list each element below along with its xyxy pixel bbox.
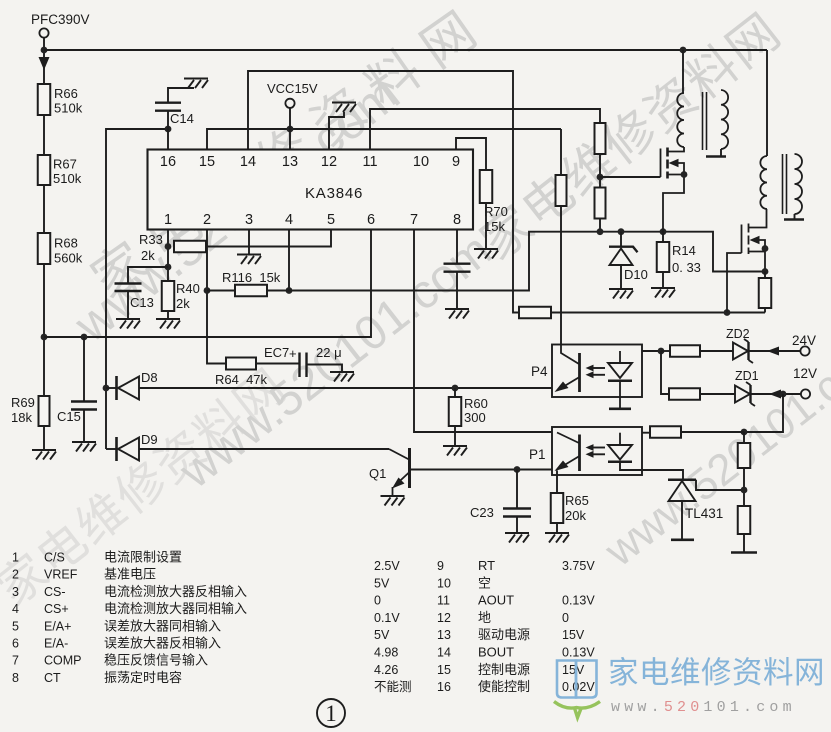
svg-text:2k: 2k	[176, 296, 190, 311]
wire	[662, 232, 664, 242]
junction R60 tap	[452, 385, 459, 392]
svg-text:6: 6	[367, 212, 375, 228]
wire to P4 collector	[560, 206, 562, 345]
svg-text:P1: P1	[529, 447, 546, 462]
svg-text:R66: R66	[54, 86, 78, 101]
resistor gate series (MOSFET2)	[519, 307, 551, 319]
wire pin 4 CS+	[288, 230, 290, 291]
svg-text:22 μ: 22 μ	[316, 345, 342, 360]
wire VCC to P4 pull-up	[560, 129, 562, 175]
svg-text:5V: 5V	[374, 628, 390, 642]
junction MOSFET2 source	[762, 245, 769, 252]
wire	[43, 426, 45, 449]
ground Q1	[381, 496, 405, 506]
diode TL431 shunt regulator	[668, 480, 696, 501]
resistor MOSFET2 source-gate	[759, 278, 772, 308]
wire pin 9 RT	[456, 138, 486, 170]
ground CT cap	[445, 309, 469, 319]
resistor gate-source (MOSFET1)	[595, 188, 606, 219]
junction C13 tap	[165, 264, 172, 271]
svg-text:0.1V: 0.1V	[374, 611, 400, 625]
junction TL431 ref	[741, 487, 748, 494]
ground R60	[443, 446, 467, 456]
resistor divider lower	[738, 506, 751, 534]
wire top rail to T2	[766, 50, 768, 156]
arrow P1 light 2	[590, 453, 605, 455]
wire	[661, 351, 669, 394]
wire feedback line to pin 6	[44, 230, 371, 338]
wire	[599, 154, 601, 188]
op-amp P1 optocoupler box	[552, 427, 642, 475]
svg-text:1: 1	[325, 701, 337, 726]
svg-text:EC7: EC7	[264, 345, 289, 360]
svg-text:+: +	[289, 346, 297, 361]
wire	[743, 432, 745, 443]
svg-text:15: 15	[437, 663, 451, 677]
junction top rail / T1	[680, 47, 687, 54]
transistor MOSFET upper	[661, 147, 685, 232]
svg-text:使能控制: 使能控制	[478, 679, 530, 694]
svg-text:11: 11	[362, 154, 377, 170]
svg-text:D9: D9	[141, 432, 158, 447]
svg-text:14: 14	[437, 646, 451, 660]
arrow P4 light 2	[590, 374, 605, 376]
svg-text:6: 6	[12, 637, 19, 651]
wire	[764, 272, 766, 279]
wire	[43, 115, 45, 155]
svg-text:Q1: Q1	[369, 466, 386, 481]
wire D8 line to P4 emitter	[139, 387, 552, 389]
svg-text:7: 7	[410, 212, 418, 228]
svg-text:www.520101.com: www.520101.com	[595, 323, 831, 576]
arrow P4 light 1	[590, 367, 605, 369]
svg-text:10: 10	[437, 576, 451, 590]
resistor 24V feed	[670, 345, 700, 357]
core T2	[783, 154, 787, 214]
wire	[794, 214, 796, 219]
wire pin 7 COMP to P1	[414, 230, 552, 433]
svg-text:5: 5	[327, 212, 335, 228]
svg-text:CT: CT	[44, 671, 61, 685]
resistor divider upper	[738, 443, 751, 468]
svg-text:R70: R70	[484, 204, 508, 219]
svg-text:VCC15V: VCC15V	[267, 81, 318, 96]
capacitor EC7 electrolytic	[300, 353, 307, 378]
wire	[485, 203, 487, 248]
wire	[661, 350, 670, 352]
svg-text:R68: R68	[54, 236, 78, 251]
svg-text:7: 7	[12, 654, 19, 668]
op-amp P4 optocoupler box	[552, 345, 642, 398]
svg-text:C13: C13	[130, 295, 154, 310]
capacitor C23	[503, 509, 531, 517]
wire	[167, 111, 169, 129]
return bar T2 secondary	[784, 218, 804, 221]
terminal 12V	[801, 389, 810, 398]
svg-text:VREF: VREF	[44, 568, 78, 582]
resistor R65	[551, 493, 564, 523]
svg-text:8: 8	[453, 212, 461, 228]
svg-text:基准电压: 基准电压	[104, 567, 156, 582]
svg-text:空: 空	[478, 575, 491, 590]
svg-text:1: 1	[12, 551, 19, 565]
wire	[620, 265, 622, 288]
inductor T2 primary	[760, 156, 767, 209]
wire	[516, 470, 518, 509]
wire	[642, 432, 650, 434]
wire pin 16	[167, 129, 169, 150]
junction D10	[618, 228, 625, 235]
arrow MOSFET2 body	[750, 236, 760, 244]
diode D8	[117, 376, 140, 400]
arrow current 24V	[767, 347, 779, 356]
junction source/sense	[762, 268, 769, 275]
inductor T2 secondary	[795, 154, 803, 214]
svg-text:RT: RT	[478, 558, 495, 573]
svg-text:D10: D10	[624, 267, 648, 282]
svg-text:0. 33: 0. 33	[672, 260, 701, 275]
ground C14	[184, 79, 208, 89]
wire	[43, 185, 45, 233]
junction 12V rail	[780, 391, 787, 398]
wire	[700, 350, 733, 352]
svg-text:ZD2: ZD2	[726, 327, 750, 341]
return bar TL431	[671, 538, 694, 541]
svg-text:控制电源: 控制电源	[478, 662, 530, 677]
wire pin16 node to D8/D9 column	[106, 129, 168, 449]
svg-text:15k: 15k	[484, 219, 505, 234]
resistor P4 collector pull-up	[556, 175, 567, 206]
svg-text:R33: R33	[139, 232, 163, 247]
wire	[556, 523, 558, 532]
wire	[743, 534, 745, 552]
svg-text:510k: 510k	[54, 101, 83, 116]
wire	[681, 431, 744, 433]
junction MOSFET1 source	[681, 171, 688, 178]
wire	[83, 337, 85, 401]
transistor MOSFET lower	[727, 209, 767, 313]
svg-text:C14: C14	[170, 111, 194, 126]
svg-text:2.5V: 2.5V	[374, 559, 400, 573]
svg-text:5: 5	[12, 619, 19, 633]
diode ZD2 zener	[733, 339, 753, 363]
ground R40	[156, 319, 180, 329]
wire	[456, 272, 458, 308]
wire top rail	[44, 49, 767, 51]
svg-text:510k: 510k	[53, 171, 82, 186]
junction feedback-rail	[41, 334, 48, 341]
wire	[516, 517, 518, 533]
terminal PFC390V	[39, 28, 48, 37]
svg-text:4: 4	[12, 602, 19, 616]
resistor R33	[174, 241, 206, 253]
resistor R40	[162, 281, 175, 311]
transistor P1 photo	[557, 433, 580, 472]
svg-text:24V: 24V	[792, 333, 816, 348]
svg-text:1: 1	[164, 212, 172, 228]
svg-text:4.26: 4.26	[374, 663, 398, 677]
wire to T1 primary	[682, 50, 684, 93]
transistor P4 photo	[557, 345, 580, 393]
logo book swoosh	[554, 702, 600, 718]
wire TL431 ref	[696, 480, 744, 490]
ground C23	[505, 533, 529, 543]
junction C14/pin16	[165, 126, 172, 133]
svg-text:9: 9	[437, 559, 444, 573]
svg-text:R65: R65	[565, 493, 589, 508]
wire to C13	[128, 267, 168, 283]
diode D10 zener	[609, 247, 638, 265]
svg-text:TL431: TL431	[685, 506, 723, 521]
wire	[454, 388, 456, 397]
transistor Q1 NPN	[389, 448, 410, 495]
wire pin 2 VREF	[207, 230, 226, 364]
wire P1 LED cathode to TL431	[620, 462, 683, 480]
capacitor CT (pin 8)	[444, 264, 471, 272]
wire C14 to ground	[168, 88, 194, 103]
wire pin 11 AOUT	[370, 109, 600, 150]
svg-text:R67: R67	[53, 157, 77, 172]
resistor R70	[480, 170, 493, 203]
capacitor C13	[115, 284, 142, 292]
wire	[662, 272, 664, 287]
svg-text:误差放大器反相输入: 误差放大器反相输入	[104, 636, 221, 651]
resistor R68	[38, 233, 51, 264]
wire R33 to pin 5	[206, 230, 331, 247]
svg-text:0.13V: 0.13V	[562, 594, 595, 608]
svg-text:PFC390V: PFC390V	[31, 12, 90, 27]
svg-text:地: 地	[478, 610, 491, 625]
ground D10	[609, 289, 633, 299]
wire pin 3	[248, 230, 250, 254]
resistor P1 LED feed	[650, 426, 681, 438]
wire	[307, 365, 343, 372]
svg-text:4.98: 4.98	[374, 646, 398, 660]
ground pin 12	[332, 103, 356, 113]
svg-text:0: 0	[374, 594, 381, 608]
svg-text:C/S: C/S	[44, 551, 65, 565]
svg-text:20k: 20k	[565, 508, 586, 523]
svg-text:560k: 560k	[54, 251, 83, 266]
svg-text:C15: C15	[57, 409, 81, 424]
resistor R64	[226, 358, 256, 370]
junction R33/pin1	[165, 243, 172, 250]
svg-text:13: 13	[282, 154, 298, 170]
arrow MOSFET1 body	[669, 159, 679, 167]
ground R69	[32, 450, 56, 460]
node MOSFET1 gate	[597, 174, 604, 181]
resistor R14	[657, 242, 670, 272]
wire	[127, 291, 129, 318]
svg-text:电流检测放大器同相输入: 电流检测放大器同相输入	[104, 601, 247, 616]
svg-text:D8: D8	[141, 370, 158, 385]
svg-text:KA3846: KA3846	[305, 185, 363, 202]
svg-text:R14: R14	[672, 243, 696, 258]
node MOSFET2 gate line	[724, 309, 731, 316]
arrow Q1 emitter	[392, 478, 405, 489]
svg-text:驱动电源: 驱动电源	[478, 627, 530, 642]
op-amp U1 KA3846 PWM controller	[148, 150, 474, 230]
ground R65	[545, 533, 569, 543]
ground C15	[72, 442, 96, 452]
wire pin 12	[329, 112, 344, 150]
svg-text:2k: 2k	[141, 248, 155, 263]
svg-text:15V: 15V	[562, 663, 585, 677]
pin numbers bottom row 1..8	[164, 212, 461, 228]
ground R14	[651, 288, 675, 298]
svg-text:家电维修资料网: 家电维修资料网	[608, 656, 825, 690]
wire rail from PFC terminal	[43, 38, 45, 84]
capacitor C15	[71, 402, 97, 410]
svg-text:300: 300	[464, 410, 486, 425]
pin function table (pins 1-8)	[12, 550, 247, 685]
svg-text:R40: R40	[176, 281, 200, 296]
svg-text:误差放大器同相输入: 误差放大器同相输入	[104, 618, 221, 633]
ground pin 3	[237, 255, 261, 265]
svg-text:AOUT: AOUT	[478, 593, 514, 608]
wire Q1 base to P1 emitter	[410, 469, 553, 471]
diode ZD1 zener	[735, 382, 755, 406]
diode P1 LED	[608, 433, 632, 462]
svg-text:电流检测放大器反相输入: 电流检测放大器反相输入	[104, 584, 247, 599]
wire	[106, 448, 116, 450]
svg-text:0.02V: 0.02V	[562, 680, 595, 694]
svg-text:COMP: COMP	[44, 654, 82, 668]
ground EC7	[330, 372, 354, 382]
core T1	[703, 92, 707, 150]
svg-text:E/A+: E/A+	[44, 619, 71, 633]
logo book icon	[557, 661, 597, 698]
wire	[106, 387, 116, 389]
svg-text:振荡定时电容: 振荡定时电容	[104, 670, 182, 685]
svg-text:稳压反馈信号输入: 稳压反馈信号输入	[104, 653, 208, 668]
wire	[720, 149, 722, 156]
return bar divider	[731, 551, 757, 554]
svg-text:R64 47k: R64 47k	[215, 372, 268, 387]
junction R14	[660, 228, 667, 235]
ground C13	[116, 319, 140, 329]
junction divider top	[741, 429, 748, 436]
wire	[43, 264, 45, 396]
svg-text:3.75V: 3.75V	[562, 559, 595, 573]
svg-text:15V: 15V	[562, 628, 585, 642]
svg-text:C23: C23	[470, 505, 494, 520]
svg-text:P4: P4	[531, 364, 548, 379]
arrow current 12V	[769, 390, 781, 399]
resistor 12V feed	[669, 388, 700, 400]
return bar T1 secondary	[706, 155, 726, 158]
svg-text:15: 15	[199, 154, 215, 170]
svg-text:不能测: 不能测	[374, 680, 412, 694]
wire 12V to P1 feed	[744, 394, 783, 432]
inductor T1 primary	[677, 93, 684, 147]
wire current-sense line	[267, 232, 765, 291]
resistor R67	[38, 155, 51, 185]
arrow P4 emitter	[555, 382, 569, 393]
svg-text:3: 3	[245, 212, 253, 228]
wire to 12V terminal	[751, 393, 801, 395]
junction VCC	[287, 126, 294, 133]
terminal VCC15V	[285, 99, 294, 108]
figure number 1 circled	[317, 699, 345, 727]
polarity arrow on rail	[39, 57, 50, 70]
wire	[681, 501, 683, 539]
junction D8 tap	[103, 385, 110, 392]
junction R116 left	[204, 287, 211, 294]
resistor R60	[449, 397, 462, 426]
svg-text:12: 12	[437, 611, 451, 625]
svg-text:家电维修资料网: 家电维修资料网	[470, 2, 791, 270]
svg-text:ZD1: ZD1	[735, 369, 759, 383]
junction C23 tap	[514, 466, 521, 473]
junction R116 right	[286, 287, 293, 294]
diode P4 LED	[608, 351, 632, 408]
svg-text:CS-: CS-	[44, 585, 66, 599]
svg-text:11: 11	[437, 594, 450, 608]
svg-text:10: 10	[413, 154, 429, 170]
svg-text:电流限制设置: 电流限制设置	[104, 550, 182, 565]
resistor gate series (MOSFET1)	[595, 123, 606, 154]
wire	[454, 426, 456, 445]
wire	[700, 393, 735, 395]
arrow P1 emitter	[555, 461, 569, 472]
svg-text:16: 16	[437, 680, 451, 694]
junction rail top	[41, 47, 48, 54]
svg-text:0: 0	[562, 611, 569, 625]
wire	[556, 471, 558, 494]
pin numbers top row 16..9	[160, 154, 460, 170]
wire pin 8 CT	[456, 230, 458, 264]
svg-text:13: 13	[437, 628, 451, 642]
svg-text:18k: 18k	[11, 410, 32, 425]
wire pin 14 BOUT	[248, 71, 519, 313]
wire	[620, 232, 622, 246]
svg-text:BOUT: BOUT	[478, 645, 514, 660]
svg-text:www.520101.com: www.520101.com	[611, 699, 796, 716]
resistor R69	[39, 396, 50, 426]
svg-text:16: 16	[160, 154, 176, 170]
svg-text:14: 14	[240, 154, 256, 170]
wire pin 1	[167, 230, 169, 282]
wire	[764, 308, 766, 313]
wire pin 13	[289, 108, 291, 150]
junction sense/gate-divider	[597, 228, 604, 235]
svg-text:12V: 12V	[793, 366, 817, 381]
wire	[167, 311, 169, 318]
svg-text:0.13V: 0.13V	[562, 646, 595, 660]
ground R70	[474, 249, 498, 259]
inductor T1 secondary	[721, 90, 728, 149]
wire	[256, 363, 299, 365]
wire	[743, 468, 745, 506]
arrow P1 light 1	[590, 447, 605, 449]
junction C15 tap	[81, 334, 88, 341]
svg-text:12: 12	[321, 154, 337, 170]
wire to MOSFET1 gate	[600, 176, 661, 178]
svg-text:2: 2	[203, 212, 211, 228]
svg-text:E/A-: E/A-	[44, 637, 68, 651]
diode D9	[117, 437, 140, 461]
wire	[599, 219, 601, 232]
svg-text:8: 8	[12, 671, 19, 685]
svg-text:CS+: CS+	[44, 602, 69, 616]
svg-text:2: 2	[12, 568, 19, 582]
svg-text:R69: R69	[11, 395, 35, 410]
svg-text:R116 15k: R116 15k	[222, 270, 281, 285]
svg-text:R60: R60	[464, 396, 488, 411]
wire P4 anode out	[642, 350, 661, 352]
svg-text:4: 4	[285, 212, 293, 228]
